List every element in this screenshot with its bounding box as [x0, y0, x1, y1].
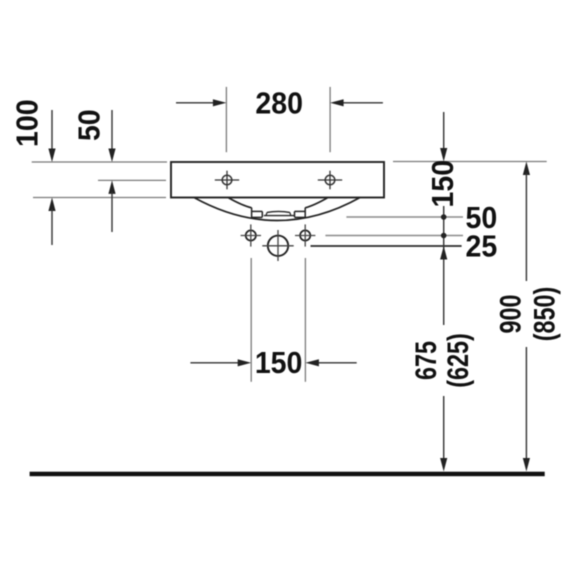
dimension 150 right upper tail: [443, 112, 445, 150]
dimension 150 bottom right tail: [317, 362, 357, 364]
dimension 900 down arrow at floor: [523, 458, 530, 472]
tap hole center mark left: [215, 171, 239, 190]
tap hole center mark right: [318, 171, 342, 190]
basin rectangle outline: [171, 162, 384, 198]
extension line 50 right: [346, 216, 463, 218]
extension line top surface left: [32, 161, 167, 163]
extension line 25 right: [325, 235, 463, 237]
svg-text:150: 150: [255, 346, 303, 380]
dimension 150 bottom left tail: [190, 362, 240, 364]
extension line 280 left: [225, 87, 227, 152]
dimension 100 up arrow: [48, 198, 55, 212]
mounting hole left crosshair: [241, 224, 261, 246]
mounting hole right crosshair: [295, 224, 315, 246]
drain hole crosshair: [262, 230, 293, 261]
svg-text:675: 675: [409, 341, 442, 380]
dimension line 675 lower segment: [443, 396, 445, 460]
dimension 150 bottom right arrow (pointing right): [238, 359, 252, 366]
svg-text:(625): (625): [441, 333, 474, 388]
dimension line 900 upper segment: [525, 173, 527, 281]
dimension 900 up arrow: [523, 162, 530, 176]
mounting hole left circle: [246, 230, 256, 240]
svg-text:(850): (850): [528, 287, 561, 342]
dimension 50 up arrow: [108, 180, 115, 194]
drain cover top arc: [267, 211, 290, 212]
dimension 280 right tail: [342, 102, 383, 104]
drain cover right edge: [290, 212, 291, 215]
svg-text:280: 280: [255, 86, 303, 120]
extension line hole left down: [250, 258, 252, 382]
dimension 150 bottom left arrow (pointing left): [305, 359, 319, 366]
dimension 675 down arrow at floor: [440, 458, 447, 472]
dimension 280 right arrow (pointing right): [213, 99, 227, 106]
extension line bottom right (dark): [311, 245, 462, 247]
svg-text:100: 100: [10, 99, 44, 147]
dimension line 900 lower segment: [525, 347, 527, 460]
svg-text:25: 25: [466, 229, 498, 263]
svg-text:50: 50: [73, 109, 107, 141]
drain cover bottom line: [264, 215, 295, 217]
dimension 100 down arrow: [48, 149, 55, 163]
dimension 100 upper tail: [51, 110, 53, 151]
dimension line 675 upper segment: [443, 206, 445, 325]
dimension 100 lower tail: [51, 209, 53, 245]
fixing tab left: [252, 208, 263, 219]
dimension 50 lower tail: [111, 192, 113, 232]
fixing tab right: [295, 208, 306, 219]
extension line top surface right: [393, 161, 547, 163]
dot at 25 line: [441, 233, 447, 239]
svg-text:900: 900: [494, 294, 527, 333]
extension line 280 right: [329, 87, 331, 152]
extension line bottom left (100): [33, 197, 166, 199]
dimension 280 left arrow (pointing left): [330, 99, 344, 106]
extension line mid left (50): [98, 179, 166, 181]
mounting hole right circle: [300, 230, 310, 240]
bowl inner arc right: [305, 198, 328, 208]
dimension 25 up arrow: [440, 246, 447, 260]
svg-text:150: 150: [426, 160, 460, 208]
dot at 50 line: [441, 214, 447, 220]
dimension 280 left tail: [176, 102, 215, 104]
bowl inner arc left: [228, 198, 252, 208]
dimension 50 down arrow: [108, 149, 115, 163]
floor line: [30, 472, 545, 477]
dimension 150 right down arrow: [440, 148, 447, 162]
drain cover left edge: [266, 212, 267, 215]
dimension 50 upper tail: [111, 110, 113, 151]
bowl outer arc: [194, 198, 360, 221]
extension line hole right down: [304, 258, 306, 382]
drain hole center circle: [268, 236, 288, 256]
